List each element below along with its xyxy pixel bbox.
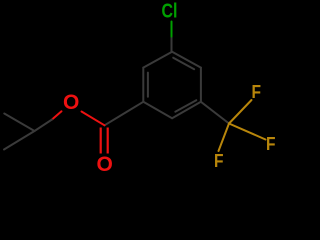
wire bond ring V_bl to carbonyl C bbox=[105, 102, 144, 126]
benzene ring C1-C6 outer bonds bbox=[143, 52, 201, 118]
bond carbonyl C to ester O (red) bbox=[82, 112, 105, 126]
wire ring bond V_bl to V_bot bbox=[143, 102, 172, 118]
carbonyl C=O double bond (red) bbox=[100, 128, 102, 154]
svg-text:F: F bbox=[252, 82, 262, 102]
bond CF3 C to top F (gold) bbox=[229, 100, 252, 124]
wire ring bond V_top to V_tl bbox=[143, 52, 172, 68]
wire ring bond V_bot to V_br (double, outer) bbox=[172, 102, 201, 118]
chlorine bond black half bbox=[171, 37, 173, 52]
bond CF3 C to right F (gold) bbox=[229, 124, 266, 140]
svg-text:F: F bbox=[266, 134, 276, 154]
wire ring inner double line bottom-right bbox=[175, 100, 196, 112]
bond ester O to iPr CH, red half bbox=[52, 111, 62, 119]
wire ring inner double line top-right bbox=[173, 58, 194, 69]
wire ring bond V_tr to V_top (double, outer) bbox=[172, 52, 201, 68]
svg-text:Cl: Cl bbox=[162, 1, 178, 23]
bond CF3 C to bottom-left F (gold) bbox=[219, 124, 230, 152]
bond ester O to iPr CH, black half bbox=[35, 120, 53, 132]
wire iPr CH to methyl (upper) bbox=[4, 114, 34, 132]
chlorine bond green half bbox=[171, 22, 173, 37]
wire ring bond V_tl to V_bl (double, outer) bbox=[142, 68, 144, 102]
svg-text:O: O bbox=[63, 91, 79, 114]
wire iPr CH to methyl (lower) bbox=[4, 131, 35, 150]
wire bond ring V_br to CF3 carbon bbox=[201, 102, 229, 124]
svg-text:O: O bbox=[97, 153, 113, 176]
wire ring bond V_br to V_tr bbox=[200, 68, 202, 102]
svg-text:F: F bbox=[214, 151, 224, 171]
wire ring inner double line left bbox=[147, 73, 149, 97]
